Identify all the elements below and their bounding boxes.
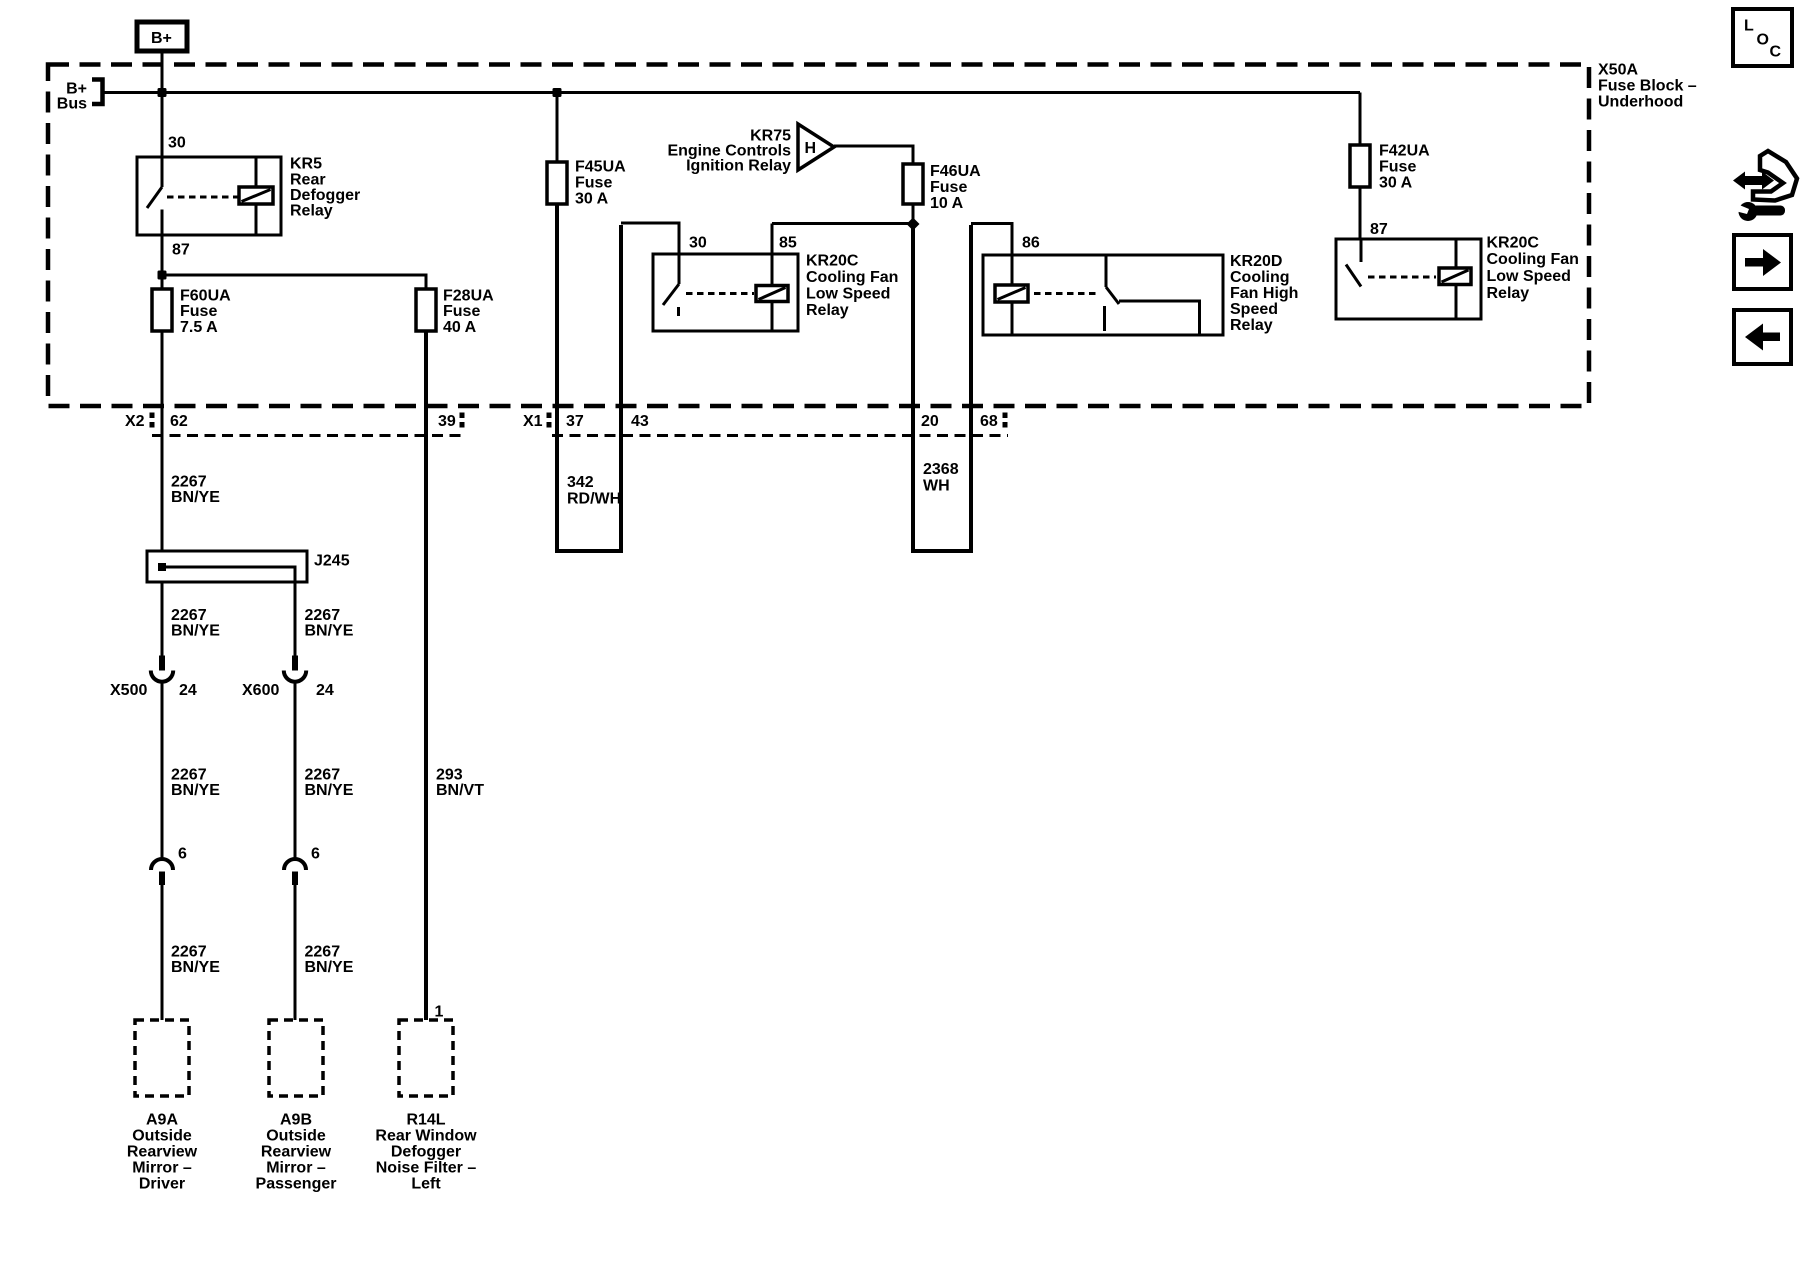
relay KR20D coil [995, 285, 1028, 302]
svg-text:85: 85 [779, 235, 797, 252]
wire label 2267 BN/YE mid left [171, 767, 220, 800]
relay KR20C right caption [1487, 235, 1579, 302]
relay KR5 switch arm [147, 187, 162, 208]
wire label 2267 BN/YE below J245 left [171, 607, 220, 640]
caption A9B Outside Rearview Mirror Passenger [256, 1112, 337, 1193]
fuse F28UA [416, 289, 436, 331]
relay KR20D switch lower stub [1103, 306, 1106, 331]
wire down to A9A [161, 885, 164, 1020]
svg-text:F28UA: F28UA [443, 288, 494, 305]
svg-text:Cooling Fan: Cooling Fan [806, 269, 898, 286]
connector 39 colon mark [460, 413, 465, 419]
node junction dot in J245 [158, 563, 166, 571]
button previous page (left arrow) [1734, 310, 1791, 364]
relay KR5 coil pin line [255, 157, 258, 235]
svg-text:Fuse: Fuse [443, 303, 480, 320]
svg-text:BN/YE: BN/YE [171, 782, 220, 799]
connector X2 colon mark [150, 413, 155, 419]
relay KR20C coil pin line [771, 254, 774, 331]
svg-text:F60UA: F60UA [180, 288, 231, 305]
svg-text:6: 6 [311, 846, 320, 863]
svg-text:X50A: X50A [1598, 62, 1638, 79]
svg-text:293: 293 [436, 767, 463, 784]
fuse F60UA [152, 289, 172, 331]
svg-text:X2: X2 [125, 413, 145, 430]
svg-text:1: 1 [435, 1004, 444, 1021]
svg-text:Noise Filter –: Noise Filter – [376, 1160, 477, 1177]
fuse F42UA [1350, 145, 1370, 187]
splice J245 inner branch [162, 567, 295, 582]
svg-text:2267: 2267 [305, 944, 341, 961]
relay KR5 caption [290, 156, 360, 220]
svg-text:Low Speed: Low Speed [806, 286, 890, 303]
svg-text:J245: J245 [314, 553, 350, 570]
svg-text:Left: Left [411, 1176, 441, 1193]
wire label 2267 BN/YE mid right [305, 767, 354, 800]
svg-text:BN/VT: BN/VT [436, 782, 484, 799]
svg-text:Relay: Relay [290, 203, 333, 220]
B+ terminal box [137, 22, 187, 51]
svg-text:342: 342 [567, 474, 594, 491]
splice J245 box [147, 551, 307, 582]
svg-text:BN/YE: BN/YE [171, 489, 220, 506]
svg-text:10 A: 10 A [930, 195, 964, 212]
LOC reference box [1733, 9, 1792, 66]
svg-text:6: 6 [178, 846, 187, 863]
svg-text:2267: 2267 [305, 607, 341, 624]
svg-text:30: 30 [168, 135, 186, 152]
svg-text:Fuse: Fuse [180, 303, 217, 320]
svg-text:2267: 2267 [171, 607, 207, 624]
svg-text:Rearview: Rearview [127, 1144, 198, 1161]
svg-text:2267: 2267 [305, 767, 341, 784]
relay KR20D coil pin line [1011, 255, 1014, 335]
svg-text:Underhood: Underhood [1598, 93, 1683, 110]
svg-text:30 A: 30 A [575, 191, 609, 208]
svg-text:68: 68 [980, 413, 998, 430]
caption KR75 [667, 128, 791, 175]
icon harness jump (double arrow, outline arrow, wrench) [1733, 151, 1797, 221]
svg-text:KR20D: KR20D [1230, 253, 1282, 270]
svg-text:X600: X600 [242, 682, 279, 699]
relay KR20C coil dashed link [686, 292, 754, 295]
relay KR20C cooling fan low speed (right) box [1336, 239, 1481, 319]
node junction dot at F45UA drop [553, 88, 562, 97]
wire B+ bus horizontal rail [104, 91, 1360, 94]
svg-text:X500: X500 [110, 682, 147, 699]
svg-text:Cooling: Cooling [1230, 269, 1290, 286]
wire 342 RD/WH loop down through X1-37 and back up pin 43 to KR20C 30 [557, 204, 621, 551]
connector X1 colon mark [547, 413, 552, 419]
svg-text:F45UA: F45UA [575, 159, 626, 176]
svg-text:Fan High: Fan High [1230, 285, 1298, 302]
component A9A dashed box [135, 1020, 189, 1096]
connector X500 pin 24 inline symbol [151, 656, 173, 682]
svg-text:BN/YE: BN/YE [171, 959, 220, 976]
svg-text:BN/YE: BN/YE [305, 782, 354, 799]
relay KR20C right coil dashed link [1368, 276, 1436, 279]
svg-text:Low Speed: Low Speed [1487, 268, 1571, 285]
svg-text:KR20C: KR20C [806, 253, 859, 270]
svg-text:Fuse: Fuse [930, 179, 967, 196]
svg-text:40 A: 40 A [443, 319, 477, 336]
wire label 2267 BN/YE lower right [305, 944, 354, 977]
relay KR20D switch arm [1106, 287, 1119, 304]
relay KR20C caption [806, 253, 898, 320]
connector row X2 bottom dashed line [152, 434, 466, 437]
wire label 2267 BN/YE below J245 right [305, 607, 354, 640]
component R14L dashed box [399, 1020, 453, 1096]
svg-text:20: 20 [921, 413, 939, 430]
wire F28UA down through X2-39 to R14L (293 BN/VT) [424, 331, 428, 1020]
svg-text:A9B: A9B [280, 1112, 312, 1129]
svg-text:Fuse: Fuse [1379, 159, 1416, 176]
svg-text:Outside: Outside [132, 1128, 192, 1145]
svg-text:Cooling Fan: Cooling Fan [1487, 251, 1579, 268]
svg-text:7.5 A: 7.5 A [180, 319, 218, 336]
relay KR20D cooling fan high speed box [983, 255, 1223, 335]
node junction dot at B+ drop [158, 88, 167, 97]
svg-text:Rear Window: Rear Window [375, 1128, 477, 1145]
svg-text:O: O [1757, 32, 1769, 49]
svg-text:Defogger: Defogger [290, 187, 360, 204]
caption R14L Rear Window Defogger Noise Filter Left [375, 1112, 477, 1193]
connector 68 colon mark [1003, 413, 1008, 419]
connector pin 6 inline symbol at A9A [151, 859, 173, 885]
relay KR20C right coil [1439, 268, 1471, 285]
svg-text:2267: 2267 [171, 767, 207, 784]
svg-text:R14L: R14L [406, 1112, 445, 1129]
svg-text:L: L [1744, 18, 1754, 35]
wire label 293 BN/VT [436, 767, 484, 800]
wire label 2267 BN/YE upper [171, 474, 220, 507]
wire X600 down to mirror connector [294, 681, 297, 859]
svg-text:Rear: Rear [290, 171, 326, 188]
svg-text:43: 43 [631, 413, 649, 430]
svg-text:87: 87 [172, 242, 190, 259]
wire B+ terminal down to KR5 pin 30 [161, 51, 164, 157]
wire F60UA down through X2-62 to J245 [161, 331, 164, 551]
connector row X1 bottom dashed line [552, 434, 1008, 437]
wire 2368 WH loop down through X1-20 and back up pin 68 to KR20D 86 [912, 204, 915, 224]
wire F42UA to KR20C low speed relay [1359, 187, 1362, 239]
svg-text:BN/YE: BN/YE [171, 623, 220, 640]
button next page (right arrow) [1734, 235, 1791, 289]
svg-text:A9A: A9A [146, 1112, 178, 1129]
svg-text:BN/YE: BN/YE [305, 959, 354, 976]
wire down to A9B [294, 885, 297, 1020]
svg-text:Fuse Block –: Fuse Block – [1598, 78, 1697, 95]
svg-text:F46UA: F46UA [930, 163, 981, 180]
relay KR20C right switch arm [1346, 265, 1361, 287]
caption A9A Outside Rearview Mirror Driver [127, 1112, 198, 1193]
svg-text:X1: X1 [523, 413, 543, 430]
relay KR20C switch lower stub [677, 307, 680, 316]
relay KR5 coil dashed link [167, 196, 238, 199]
svg-text:Driver: Driver [139, 1176, 185, 1193]
svg-text:Relay: Relay [1230, 317, 1273, 334]
svg-text:B+: B+ [151, 30, 172, 47]
svg-text:Bus: Bus [57, 96, 87, 113]
wire pin85 drop [771, 224, 774, 255]
svg-text:24: 24 [316, 682, 334, 699]
svg-text:Rearview: Rearview [261, 1144, 332, 1161]
relay KR5 box [137, 157, 281, 235]
svg-text:30 A: 30 A [1379, 175, 1413, 192]
connector X600 pin 24 inline symbol [284, 656, 306, 682]
relay KR20D caption [1230, 253, 1298, 334]
wire KR5 87 down [161, 235, 164, 289]
wire label 2368 WH [923, 461, 959, 494]
relay KR75 engine controls ignition relay triangle [798, 124, 834, 170]
wire label 2267 BN/YE lower left [171, 944, 220, 977]
fuse F45UA [547, 162, 567, 204]
relay KR5 pin30 stub [161, 157, 164, 187]
fuse F46UA [903, 164, 923, 204]
svg-text:Mirror –: Mirror – [132, 1160, 192, 1177]
wire J245 right leg down to X600 [294, 582, 297, 657]
relay KR20C pin30 stub [678, 254, 681, 284]
wire rail KR20C pin85 to F46UA junction [772, 222, 913, 225]
svg-text:Mirror –: Mirror – [266, 1160, 326, 1177]
wire J245 left leg down to X500 [161, 582, 164, 657]
relay KR20C right pin87 stub [1360, 239, 1363, 262]
svg-text:Relay: Relay [1487, 285, 1530, 302]
svg-text:86: 86 [1022, 235, 1040, 252]
relay KR5 pin87 stub [161, 210, 164, 236]
svg-text:BN/YE: BN/YE [305, 623, 354, 640]
wire bus to F45UA [556, 93, 559, 163]
svg-text:24: 24 [179, 682, 197, 699]
svg-text:RD/WH: RD/WH [567, 491, 621, 508]
svg-text:KR20C: KR20C [1487, 235, 1540, 252]
svg-text:Ignition Relay: Ignition Relay [686, 158, 791, 175]
relay KR20D coil dashed link [1034, 292, 1100, 295]
svg-text:Outside: Outside [266, 1128, 326, 1145]
svg-text:2267: 2267 [171, 944, 207, 961]
svg-text:F42UA: F42UA [1379, 143, 1430, 160]
svg-text:Fuse: Fuse [575, 175, 612, 192]
svg-text:Relay: Relay [806, 302, 849, 319]
wire X500 down to mirror connector [161, 681, 164, 859]
svg-text:30: 30 [689, 235, 707, 252]
node junction dot at F60UA/F28UA split [158, 271, 167, 280]
X50A fuse block caption [1598, 62, 1697, 111]
relay KR20C switch arm [663, 284, 679, 305]
svg-text:Speed: Speed [1230, 301, 1278, 318]
svg-text:39: 39 [438, 413, 456, 430]
svg-text:KR5: KR5 [290, 156, 322, 173]
X50A Fuse Block Underhood dashed box [48, 65, 1589, 407]
component A9B dashed box [269, 1020, 323, 1096]
node B+ Bus bracket [57, 80, 103, 113]
svg-text:2368: 2368 [923, 461, 959, 478]
wire branch to F28UA [162, 275, 426, 289]
svg-text:87: 87 [1370, 221, 1388, 238]
svg-text:37: 37 [566, 413, 584, 430]
relay KR5 coil [239, 187, 273, 204]
svg-text:Defogger: Defogger [391, 1144, 461, 1161]
svg-text:2267: 2267 [171, 474, 207, 491]
svg-text:H: H [805, 140, 817, 157]
svg-text:Passenger: Passenger [256, 1176, 337, 1193]
node junction diamond below F46UA [907, 218, 920, 231]
relay KR20C cooling fan low speed box [653, 254, 798, 331]
relay KR20C right coil pin line [1455, 239, 1458, 319]
wire label 342 RD/WH [567, 474, 621, 507]
relay KR20D switch pin line [1105, 255, 1108, 287]
wire KR75 to F46UA [834, 146, 913, 164]
svg-text:C: C [1770, 44, 1782, 61]
svg-text:62: 62 [170, 413, 188, 430]
wire bus corner down to F42UA [1359, 93, 1362, 146]
relay KR20D output path [1119, 301, 1200, 335]
relay KR20C coil [756, 286, 788, 302]
connector pin 6 inline symbol at A9B [284, 859, 306, 885]
svg-text:WH: WH [923, 477, 950, 494]
